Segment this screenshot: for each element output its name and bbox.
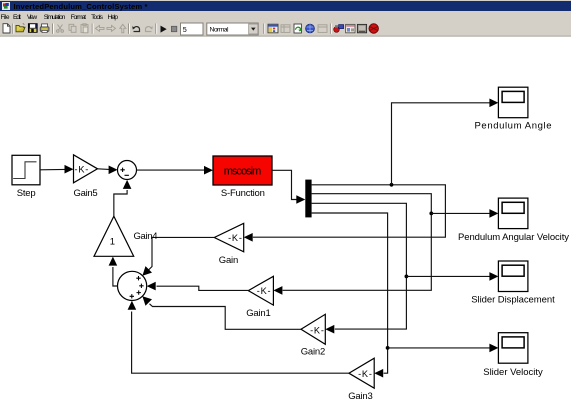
wire Gain4 to Sum1 minus port [114, 180, 132, 216]
sum Sum2 [118, 271, 147, 300]
svg-text:1: 1 [110, 237, 115, 248]
svg-text:Pendulum Angle: Pendulum Angle [475, 120, 552, 131]
toolbar button disabled [318, 25, 327, 33]
label Gain3 [348, 391, 373, 402]
label Step [17, 188, 36, 199]
toolbar button Debug [306, 24, 315, 33]
toolbar separator [52, 24, 55, 34]
gain Gain1 [248, 276, 273, 305]
label Gain2 [301, 346, 326, 357]
svg-text:-K-: -K- [75, 164, 89, 174]
toolbar button Redo (disabled) [146, 26, 153, 31]
svg-text:Gain: Gain [219, 255, 239, 266]
svg-text:Slider Displacement: Slider Displacement [471, 295, 555, 306]
svg-text:-K-: -K- [310, 325, 324, 335]
svg-text:Step: Step [17, 188, 36, 199]
svg-text:Format: Format [71, 14, 87, 21]
window icon [2, 2, 10, 10]
toolbar button Console [357, 24, 366, 32]
gain Gain2 [301, 314, 325, 344]
svg-text:5: 5 [183, 25, 187, 34]
toolbar button Target [369, 24, 378, 33]
wire Sum2 to Gain4 [109, 257, 118, 286]
toolbar button Back (disabled) [96, 25, 105, 31]
svg-text:View: View [27, 14, 37, 21]
gain Gain4 (unity, rotated up) [94, 216, 134, 256]
wire Gain to Sum2 NE port [142, 237, 214, 275]
svg-text:Pendulum Angular Velocity: Pendulum Angular Velocity [458, 232, 569, 243]
wire Gain5 to Sum1 [98, 166, 118, 175]
wire branch to Slider Displacement scope [406, 272, 498, 281]
toolbar button Stop simulation [171, 26, 176, 31]
svg-text:Normal: Normal [210, 26, 229, 33]
toolbar button Copy (disabled) [69, 24, 76, 32]
svg-text:mscosim: mscosim [224, 165, 262, 177]
toolbar button New [3, 24, 10, 33]
toolbar separator [329, 24, 332, 34]
toolbar button Report [346, 24, 355, 32]
wire Gain1 to Sum2 E port [147, 282, 249, 291]
toolbar button Library Browser [268, 24, 278, 33]
label Gain4 [134, 231, 158, 242]
scope Slider Velocity [498, 333, 528, 364]
toolbar button Start simulation [161, 26, 167, 33]
svg-text:Help: Help [108, 14, 119, 21]
svg-text:S-Function: S-Function [221, 188, 265, 199]
gain Gain [214, 223, 243, 252]
scope Slider Displacement [498, 261, 528, 292]
toolbar separator [128, 24, 131, 34]
title text [14, 2, 148, 11]
simulation mode combo box Normal [207, 23, 258, 35]
wire Demux out1 to Gain input [244, 185, 446, 242]
svg-text:Gain3: Gain3 [348, 391, 373, 402]
svg-text:Gain2: Gain2 [301, 346, 326, 357]
label Gain5 [74, 188, 98, 199]
toolbar button Paste (disabled) [81, 24, 88, 33]
gain Gain5 [74, 155, 98, 183]
demux Demux [305, 180, 311, 218]
junction on Demux out3 [405, 275, 409, 279]
wire Step to Gain5 [40, 165, 74, 174]
scope Pendulum Angle [498, 87, 528, 118]
label Gain1 [246, 308, 271, 319]
svg-text:-K-: -K- [228, 233, 242, 243]
menu item File [1, 14, 10, 21]
wire branch to Pendulum Angle scope [392, 99, 499, 185]
svg-text:-K-: -K- [358, 369, 372, 379]
toolbar button Save [28, 24, 37, 33]
toolbar button Cut (disabled) [57, 25, 64, 33]
scope Pendulum Angular Velocity [498, 198, 528, 229]
svg-text:File: File [1, 14, 10, 21]
wire Sum1 to S-Function [137, 166, 214, 175]
label Gain [219, 255, 239, 266]
label Pendulum Angular Velocity [458, 232, 569, 243]
junction on Demux out2 [429, 212, 433, 216]
wire Demux out2 to Gain1 input [273, 194, 431, 295]
label Slider Velocity [483, 367, 543, 378]
step source Step [12, 155, 40, 185]
toolbar separator [91, 24, 94, 34]
svg-text:Gain1: Gain1 [246, 308, 271, 319]
wire branch to Pendulum Angular Velocity scope [431, 209, 498, 218]
toolbar button Update diagram [294, 24, 302, 33]
s-function block mscosim [213, 156, 272, 185]
toolbar button Up (disabled) [120, 24, 126, 33]
menu item Help [108, 14, 119, 21]
menu item View [27, 14, 37, 21]
junction on Demux out4 [386, 346, 390, 350]
menu bar [0, 11, 571, 22]
toolbar button Forward (disabled) [107, 25, 116, 31]
svg-text:Gain4: Gain4 [134, 231, 158, 242]
wire S-Function to Demux [272, 170, 305, 204]
menu item Tools [91, 14, 104, 21]
toolbar separator [155, 24, 158, 34]
menu item Edit [13, 14, 21, 21]
svg-text:InvertedPendulum_ControlSystem: InvertedPendulum_ControlSystem * [14, 2, 148, 11]
svg-text:Edit: Edit [13, 14, 21, 21]
toolbar button Model browser (disabled) [281, 25, 290, 33]
toolbar separator [12, 24, 15, 34]
simulation time field [181, 23, 204, 35]
svg-text:Tools: Tools [91, 14, 104, 21]
wire Gain2 to Sum2 SE port [142, 296, 301, 329]
toolbar button Print [40, 24, 49, 33]
wire Demux out4 to Gain3 input [312, 213, 388, 378]
menu item Format [71, 14, 87, 21]
toolbar background [0, 22, 571, 37]
top window border [0, 0, 571, 1]
menu item Simulation [44, 14, 66, 21]
wire Gain3 to Sum2 S port [128, 301, 349, 373]
wire Demux out3 to Gain2 input [312, 203, 407, 333]
label Slider Displacement [471, 295, 555, 306]
svg-text:Slider Velocity: Slider Velocity [483, 367, 543, 378]
svg-text:Simulation: Simulation [44, 14, 66, 21]
toolbar button Open [16, 23, 25, 31]
label S-Function [221, 188, 265, 199]
svg-text:-K-: -K- [257, 286, 271, 296]
svg-text:Gain5: Gain5 [74, 188, 98, 199]
toolbar button Undo [132, 26, 139, 31]
junction on Demux out1 [390, 183, 394, 187]
toolbar button Build [334, 25, 344, 33]
title bar [0, 1, 571, 11]
sum Sum1 [118, 161, 137, 180]
wire branch to Slider Velocity scope [388, 344, 499, 353]
label Pendulum Angle [475, 120, 552, 131]
gain Gain3 [349, 358, 374, 388]
toolbar separator [263, 24, 266, 34]
